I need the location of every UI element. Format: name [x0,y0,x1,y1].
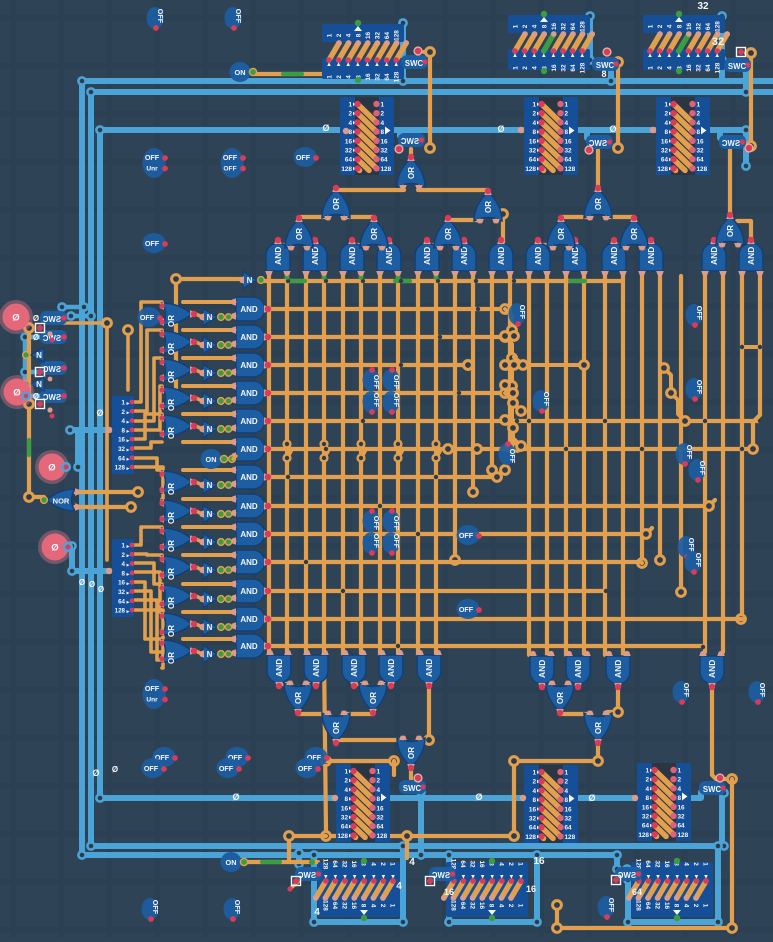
svg-text:64: 64 [644,902,651,910]
byte-maker chip U12 [313,858,400,921]
wire and to orB1 [279,684,291,687]
svg-text:64: 64 [331,860,338,868]
wire orB3 to orB6 [336,740,404,741]
svg-text:OFF: OFF [459,531,474,540]
svg-text:Ø: Ø [475,792,482,802]
bus wire swc8 down [719,793,725,846]
svg-text:16: 16 [642,804,650,811]
svg-text:AND: AND [240,473,258,482]
wire and to or leaf [568,243,575,247]
svg-text:SWC: SWC [722,139,741,148]
svg-text:N: N [207,341,213,350]
bus node [445,918,452,925]
svg-text:4: 4 [314,907,320,918]
svg-text:64: 64 [565,825,573,832]
svg-text:8: 8 [678,795,682,802]
switch button [745,144,753,152]
svg-text:OFF: OFF [459,605,474,614]
wire or to not [196,624,202,627]
not gate N [203,337,217,354]
switch SWC cluster [40,330,67,344]
wire ortree L3c [448,218,481,222]
wire and to orB1 [305,684,316,687]
svg-text:64: 64 [377,824,385,831]
wire matrix column [658,276,662,560]
not gate N [203,562,217,579]
OR gate B2 [359,683,387,712]
svg-text:8: 8 [541,24,548,28]
wire matrix row [268,307,505,311]
wire not to and [231,316,234,317]
bus wire splitter row [100,795,695,801]
wire and to or leaf [714,243,723,247]
svg-text:OFF: OFF [233,900,242,915]
wire and second input feed [183,300,234,304]
AND gate B [566,656,590,684]
wire ortree R2a [561,215,591,219]
svg-text:1: 1 [327,75,334,79]
wire fan C2 [134,572,162,612]
bus wire swc2 down [608,66,614,81]
svg-text:16: 16 [565,138,573,145]
wire not to and [231,513,234,514]
svg-text:4: 4 [532,788,536,795]
AND gate A8 [526,243,550,271]
wire and to or leaf [614,243,627,247]
svg-text:16: 16 [663,902,670,910]
bus node [68,542,75,549]
svg-text:128: 128 [580,21,587,32]
switch SWC cluster [40,311,67,325]
AND gate B [379,655,403,683]
bus wire bottom A [82,855,617,869]
output pin OFF [153,747,176,767]
AND gate L5 [236,409,265,433]
svg-text:32: 32 [118,446,125,453]
not gate N [203,506,217,523]
wire ortree L2a [336,188,404,192]
svg-text:OFF: OFF [223,166,236,173]
svg-text:OR: OR [167,371,176,383]
svg-text:128: 128 [449,900,456,911]
svg-text:Ø: Ø [609,124,616,134]
OR gate T2 [360,219,388,248]
svg-text:ON: ON [206,455,217,464]
switch SWC S11 [615,867,642,881]
svg-text:32: 32 [661,148,669,155]
wire and to or leaf [352,243,366,247]
bus node [742,65,749,72]
wire route branch [326,759,394,763]
LED indicator 0 [0,375,34,409]
svg-text:1: 1 [678,768,682,775]
wire ortree L3a [299,215,329,219]
wire matrix row [268,447,753,451]
output pin OFF [294,147,317,167]
svg-text:64: 64 [565,157,573,164]
svg-text:8: 8 [532,129,536,136]
svg-text:128: 128 [638,832,649,839]
wire matrix column [545,276,549,655]
wire or to not [196,314,202,317]
svg-text:32: 32 [561,64,568,72]
switch button [36,400,45,409]
OR gate O [162,387,192,409]
bus node [533,851,540,858]
bus node [78,77,85,84]
wire not to and [231,598,234,599]
OR gate B3 [322,713,350,742]
svg-text:OR: OR [370,228,379,240]
wire matrix column [341,276,345,655]
svg-text:Ø: Ø [48,463,55,474]
wire and second input feed [183,384,234,388]
output pin OFF [143,679,166,709]
svg-text:N: N [207,481,213,490]
output pin OFF [676,443,693,465]
svg-text:128: 128 [377,833,388,840]
byte-splitter chip U8 [524,765,578,843]
wire orR2 up [728,150,732,214]
svg-text:AND: AND [347,247,357,265]
output pin OFF [225,7,242,29]
wire fan C2 [134,591,162,652]
wire and second input feed [183,468,234,472]
wire and to or leaf [538,243,554,247]
switch button [36,324,45,333]
svg-text:OFF: OFF [145,153,160,162]
svg-text:OFF: OFF [156,9,165,24]
svg-text:OFF: OFF [392,516,401,531]
switch SWC cluster [40,389,67,403]
svg-text:AND: AND [573,660,583,678]
svg-text:OFF: OFF [372,534,381,549]
svg-text:2: 2 [377,778,381,785]
wire segment on [262,860,280,864]
wire and to orB4 [542,684,553,687]
svg-text:AND: AND [240,530,258,539]
AND gate B [342,655,366,683]
svg-text:2: 2 [532,779,536,786]
svg-text:ON: ON [235,68,246,77]
wire orB6 to swc [409,768,413,779]
svg-text:128: 128 [657,166,668,173]
wire not to and [231,626,234,627]
AND gate B [417,655,441,683]
wire or to not [196,651,202,654]
svg-text:1: 1 [389,862,396,866]
wire not to and [231,372,234,373]
svg-text:N: N [207,595,213,604]
output pin OFF [363,510,380,532]
svg-text:2: 2 [379,904,386,908]
wire column down to route [324,655,326,836]
svg-text:OFF: OFF [698,461,707,476]
svg-text:16: 16 [663,860,670,868]
wire segment on [283,72,302,76]
svg-text:AND: AND [533,247,543,265]
svg-text:2: 2 [565,111,569,118]
switch button [292,877,301,886]
OR gate T9 [584,189,612,218]
OR gate B5 [584,713,612,742]
svg-text:Ø: Ø [89,580,95,589]
svg-text:64: 64 [632,887,642,897]
OR gate O [162,359,192,381]
output pin OFF [142,758,165,778]
svg-text:16: 16 [551,23,558,31]
bus wire chip2 top [587,16,593,60]
bus wire chip1 to swc [400,23,406,81]
svg-text:Ø: Ø [33,314,39,323]
OR gate O [162,303,192,325]
wire and to or leaf [455,243,464,247]
svg-text:128: 128 [715,21,722,32]
svg-text:64: 64 [705,23,712,31]
bus node [742,162,749,169]
svg-text:64: 64 [529,157,537,164]
bus node [78,851,85,858]
svg-text:OR: OR [407,167,416,179]
svg-text:AND: AND [646,247,656,265]
byte-splitter chip U11 [112,539,134,617]
not gate N [203,534,217,551]
output pin OFF [685,551,702,573]
wire not to and [231,428,234,429]
svg-text:16: 16 [345,138,353,145]
svg-text:2: 2 [348,111,352,118]
AND gate A1 [266,243,290,271]
svg-text:OFF: OFF [758,683,767,698]
svg-text:AND: AND [240,417,258,426]
svg-text:N: N [247,276,253,285]
svg-text:OR: OR [167,483,176,495]
svg-text:1: 1 [565,102,569,109]
bus wire bottom B [91,843,722,849]
not gate N [203,393,217,410]
wire matrix column [564,276,568,655]
wire segment on [290,279,305,283]
svg-text:OFF: OFF [372,516,381,531]
wire orR root up [596,150,600,189]
bus wire switch cluster [23,337,28,396]
wire not to and [231,653,234,654]
svg-text:2: 2 [336,33,343,37]
svg-text:Unr: Unr [146,697,158,704]
switch button [585,146,593,154]
OR gate T4 [547,219,575,248]
svg-text:OFF: OFF [682,683,691,698]
bus node [742,126,749,133]
wire segment on [395,279,410,283]
wire matrix row [268,363,468,367]
svg-text:128: 128 [337,833,348,840]
wire not to and [231,484,234,485]
wire matrix row [268,504,709,508]
output pin OFF [689,459,706,481]
svg-text:64: 64 [678,823,686,830]
bus wrap chipD3 [628,846,718,922]
svg-text:32: 32 [341,902,348,910]
svg-text:1: 1 [648,24,655,28]
bus node [417,788,424,795]
bus node [586,12,593,19]
wire fan C1 [134,386,162,430]
svg-text:16: 16 [118,580,125,587]
svg-text:16: 16 [365,32,372,40]
bus node [714,842,721,849]
cluster pin dots [61,315,67,321]
svg-text:4: 4 [565,120,569,127]
switch SWC S3 [719,135,746,149]
wire matrix column [322,276,326,655]
wire fan C2 [134,554,162,555]
svg-text:2: 2 [678,777,682,784]
wire jog chain [505,337,512,365]
svg-text:N: N [207,623,213,632]
bus node [87,842,94,849]
bus wire to splitter C1 [70,427,110,433]
wire matrix column [396,276,400,655]
svg-text:1: 1 [348,102,352,109]
svg-text:OFF: OFF [685,445,694,460]
wire matrix column [434,276,438,655]
svg-text:OR: OR [369,692,378,704]
svg-text:64: 64 [331,902,338,910]
wire jog [646,528,652,534]
switch SWC S4 [401,55,428,69]
svg-text:OR: OR [332,198,341,210]
svg-text:128: 128 [715,62,722,73]
svg-text:OR: OR [167,315,176,327]
wire on to and [233,456,236,459]
svg-text:2: 2 [565,779,569,786]
svg-text:2: 2 [664,111,668,118]
wire and to orB5 [607,687,618,712]
svg-text:OFF: OFF [223,153,238,162]
svg-text:AND: AND [240,502,258,511]
svg-text:N: N [207,650,213,659]
svg-text:16: 16 [444,887,454,897]
svg-text:2: 2 [657,24,664,28]
bus wire led4 to C2 [66,546,110,571]
wire ortree R2b [605,215,634,219]
svg-text:2: 2 [379,862,386,866]
wire matrix row [268,617,742,621]
svg-text:SWC: SWC [403,784,422,793]
svg-text:8: 8 [377,796,381,803]
output pin OFF [533,390,550,412]
svg-text:1: 1 [697,102,701,109]
svg-text:16: 16 [350,902,357,910]
svg-text:4: 4 [381,120,385,127]
bus node [714,918,721,925]
svg-text:AND: AND [240,587,258,596]
AND gate L10 [236,550,265,574]
svg-text:AND: AND [384,247,394,265]
svg-text:32: 32 [529,816,537,823]
wire segment on [27,440,31,455]
AND gate A12 [702,243,726,271]
svg-text:128: 128 [394,71,401,82]
OR gate B6 [397,738,425,767]
bus link sw3 [25,370,40,375]
svg-text:64: 64 [642,823,650,830]
svg-text:32: 32 [712,36,724,48]
wire matrix column [453,276,457,560]
wire swc2 chain [613,62,618,148]
svg-text:1: 1 [648,66,655,70]
svg-text:128: 128 [394,30,401,41]
AND gate L1 [236,297,265,321]
switch button [612,876,621,885]
wire matrix row [268,532,646,536]
bus node [21,333,28,340]
bus node [21,392,28,399]
svg-text:OR: OR [167,399,176,411]
AND gate A6 [452,243,476,271]
svg-text:N: N [207,538,213,547]
bus node [399,918,406,925]
wire and second input feed [183,497,234,501]
svg-text:OR: OR [484,201,493,213]
svg-text:OR: OR [294,692,303,704]
svg-text:1: 1 [122,400,126,407]
output pin OFF [224,898,241,920]
wire and second input feed [183,525,234,529]
svg-text:OR: OR [726,225,735,237]
svg-text:32: 32 [345,148,353,155]
wire swc1 chain [424,52,430,148]
bus node [87,88,94,95]
wire not to and [231,541,234,542]
svg-text:1: 1 [122,543,126,550]
not gate N [203,365,217,382]
svg-text:64: 64 [384,73,391,81]
svg-text:OFF: OFF [694,553,703,568]
wire ortree L2b [418,188,488,192]
bus connector dots [343,128,349,134]
wire and8 up [501,216,505,243]
output pin OFF [363,532,380,554]
OR gate O [162,471,192,493]
svg-text:1: 1 [702,904,709,908]
output pin OFF [457,599,480,619]
wire matrix column [640,276,644,563]
output pin OFF [221,148,244,178]
svg-text:2: 2 [344,778,348,785]
output pin OFF [143,148,166,178]
svg-text:2: 2 [532,111,536,118]
svg-text:128: 128 [525,166,536,173]
bus node [310,918,317,925]
svg-text:16: 16 [661,138,669,145]
svg-text:64: 64 [118,455,125,462]
wire or to not [196,426,202,429]
bus node [295,860,302,867]
svg-text:32: 32 [697,1,709,12]
switch SWC S10 [429,867,456,881]
bus node [295,849,302,856]
switch button [414,47,422,55]
svg-text:2: 2 [697,111,701,118]
svg-text:OFF: OFF [144,764,159,773]
AND gate L9 [236,522,265,546]
bus link splitterB6 swc [690,792,701,798]
bus link splitter1 swc [392,130,400,136]
svg-text:4: 4 [682,862,689,866]
svg-text:64: 64 [345,157,353,164]
